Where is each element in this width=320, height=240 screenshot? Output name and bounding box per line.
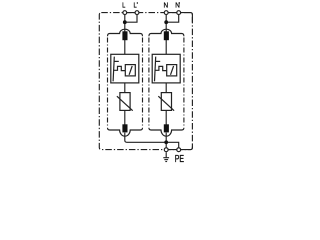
varistor RV1 diagonal bbox=[117, 96, 133, 111]
svg-text:N: N bbox=[164, 2, 169, 9]
node L junction bbox=[123, 20, 127, 24]
U2 step link bbox=[155, 66, 167, 70]
label N prime tick bbox=[178, 2, 180, 4]
contact bar N bottom bbox=[164, 124, 169, 132]
wire N terminal drop bbox=[165, 15, 167, 22]
wire L branch to PE rail bbox=[125, 133, 166, 143]
wire L terminal drop bbox=[124, 15, 126, 22]
node N junction bbox=[164, 20, 168, 24]
contact bar L bottom bbox=[122, 124, 127, 132]
wire L contact to box U1 bbox=[124, 40, 126, 54]
wire PE to border corner bbox=[166, 145, 192, 150]
contact bar N top bbox=[164, 31, 169, 40]
wire box U2 to varistor RV2 bbox=[165, 83, 167, 93]
terminal N bbox=[164, 11, 168, 15]
wire L junction to contact bbox=[124, 22, 126, 31]
module M2 boundary right side bbox=[183, 38, 185, 128]
contact bar L top bbox=[122, 31, 127, 40]
module M1 boundary right side bbox=[142, 38, 144, 128]
U1 electrode line bbox=[113, 57, 114, 82]
device enclosure dash-dot border bbox=[99, 13, 192, 150]
ground bar 2 bbox=[164, 159, 168, 161]
wire N' to border corner bbox=[181, 13, 193, 23]
U1 step link bbox=[113, 66, 125, 70]
terminal PE 2 bbox=[177, 148, 181, 152]
U2 indicator varistor box bbox=[167, 65, 177, 76]
wire PE rail to second PE terminal bbox=[166, 142, 179, 148]
terminal PE 1 bbox=[164, 148, 168, 152]
varistor RV2 body bbox=[161, 93, 171, 111]
wire L-L' top link bbox=[123, 12, 140, 14]
wire varistor RV1 to bottom contact bbox=[124, 110, 126, 124]
terminal L bbox=[123, 11, 127, 15]
terminal N' bbox=[177, 11, 181, 15]
U2 indicator varistor diagonal bbox=[171, 66, 174, 75]
ground bar 3 bbox=[165, 161, 167, 163]
wire box U1 to varistor RV1 bbox=[124, 83, 126, 93]
ground bar 1 bbox=[163, 157, 169, 159]
wire N contact to box U2 bbox=[165, 40, 167, 54]
wire N-N' top link bbox=[164, 12, 181, 14]
ground stem bbox=[165, 152, 167, 158]
disconnector box U2 bbox=[152, 54, 180, 83]
wire L' terminal drop bbox=[126, 15, 137, 22]
U1 indicator varistor diagonal bbox=[129, 66, 132, 75]
module M2 boundary bottom with bump bbox=[149, 128, 184, 136]
U1 indicator varistor box bbox=[125, 65, 135, 76]
svg-text:N: N bbox=[175, 2, 180, 9]
U2 electrode tick bbox=[155, 60, 160, 62]
wire N branch to PE terminal bbox=[165, 133, 167, 148]
node PE junction bbox=[164, 140, 168, 144]
terminal L' bbox=[135, 11, 139, 15]
module M1 boundary bottom with bump bbox=[108, 128, 143, 136]
wire varistor RV2 to bottom contact bbox=[165, 110, 167, 124]
varistor RV2 diagonal bbox=[158, 96, 174, 111]
module M2 boundary top with bump bbox=[149, 29, 184, 36]
svg-text:L: L bbox=[134, 2, 138, 10]
wire N junction to contact bbox=[165, 22, 167, 31]
module M2 boundary left side bbox=[148, 38, 150, 128]
U2 electrode line bbox=[155, 57, 156, 82]
module M1 boundary top with bump bbox=[108, 29, 143, 36]
module M1 boundary left side bbox=[107, 38, 109, 128]
svg-text:L: L bbox=[122, 2, 126, 10]
U1 electrode tick bbox=[114, 60, 119, 62]
wire N' terminal drop bbox=[167, 15, 178, 22]
disconnector box U1 bbox=[111, 54, 139, 83]
label L prime tick bbox=[136, 2, 138, 4]
varistor RV1 body bbox=[120, 93, 130, 111]
svg-text:PE: PE bbox=[175, 153, 184, 164]
